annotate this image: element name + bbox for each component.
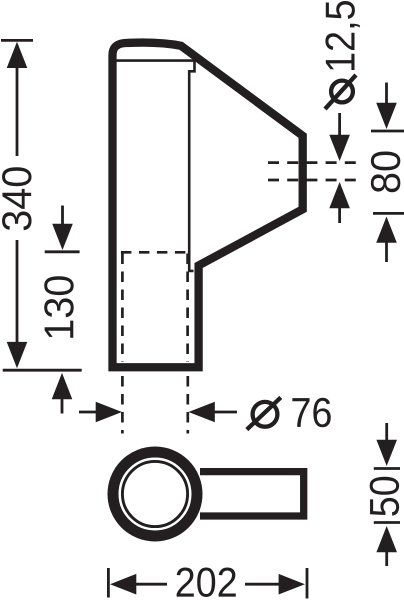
dim 202 left arrow bbox=[110, 574, 136, 595]
dim 50 label bbox=[370, 477, 400, 516]
hole centerline dashed upper bbox=[268, 161, 362, 164]
dim d12.5 down arrow bbox=[329, 135, 350, 161]
dashed insert rectangle left bbox=[121, 254, 124, 363]
dim d12.5 down arrow line bbox=[338, 113, 341, 136]
dim 130 lower arrow bbox=[52, 373, 73, 399]
dim 80 top tick bbox=[371, 130, 404, 133]
dim d76 right arrow bbox=[189, 402, 215, 423]
bottom view inner circle bbox=[122, 461, 187, 526]
dim d76 diameter symbol circle bbox=[253, 402, 278, 427]
dim 50 bottom arrow bbox=[376, 526, 397, 552]
dim 50 bottom arrow line bbox=[385, 551, 388, 566]
dim d76 right arrow tail bbox=[214, 411, 237, 414]
dim 340 line upper bbox=[16, 55, 19, 156]
dashed insert rectangle top bbox=[121, 251, 188, 254]
dashed extension below tube left bbox=[121, 376, 124, 434]
bottom view arm rectangle bbox=[200, 472, 304, 516]
dim 80 label bbox=[371, 152, 401, 193]
dim 80 bottom tick bbox=[373, 212, 404, 215]
dim 202 left arrow tail bbox=[135, 583, 167, 586]
dim 340 arrow down bbox=[7, 342, 28, 368]
dim d12.5 label bbox=[325, 1, 359, 70]
dim 50 top arrow bbox=[376, 440, 397, 466]
dim 130 label bbox=[44, 276, 74, 338]
dim 50 top arrow line bbox=[385, 423, 388, 441]
hole centerline dashed lower bbox=[268, 179, 362, 182]
cap bottom thin line bbox=[114, 59, 195, 62]
dim 130 upper arrow line bbox=[61, 206, 64, 226]
dim 50 top tick bbox=[374, 467, 400, 470]
dim 50 bottom tick bbox=[374, 521, 400, 524]
dim 202 right arrow tail bbox=[245, 583, 279, 586]
dim d12.5 diameter symbol circle bbox=[331, 81, 353, 103]
dim 130 lower arrow line bbox=[61, 398, 64, 414]
dim 80 bottom arrow bbox=[376, 217, 397, 243]
dim 202 label bbox=[177, 568, 236, 598]
dim 80 top arrow bbox=[376, 103, 397, 129]
bottom view outer ring bbox=[113, 452, 197, 536]
dim 340 label bbox=[2, 167, 32, 230]
dim 130 upper tick bbox=[45, 250, 80, 253]
dim d12.5 up arrow bbox=[329, 182, 350, 208]
main body outline (side view: tube with funnel) bbox=[113, 43, 303, 368]
dim 202 right arrow bbox=[279, 574, 305, 595]
dim d12.5 diameter symbol slash bbox=[325, 75, 356, 109]
dim 80 top arrow line bbox=[385, 83, 388, 105]
dashed insert rectangle right bbox=[186, 254, 189, 363]
dim 130 upper arrow bbox=[52, 224, 73, 250]
cap step and tube right thin edge bbox=[189, 59, 194, 271]
dim 202 left tick bbox=[107, 568, 110, 598]
dim 340 line lower bbox=[16, 240, 19, 350]
dim 80 bottom arrow line bbox=[385, 242, 388, 262]
dim d76 diameter symbol slash bbox=[247, 397, 281, 429]
dashed extension below tube right bbox=[186, 376, 189, 434]
dim 340 arrow up bbox=[7, 42, 28, 68]
dim 340 top tick bbox=[1, 39, 33, 42]
dim d76 label bbox=[292, 398, 330, 428]
dim 202 right tick bbox=[306, 568, 309, 599]
dim d12.5 up arrow line bbox=[338, 207, 341, 223]
dim d76 left arrow tail bbox=[79, 411, 97, 414]
tube bottom extension line bbox=[3, 369, 82, 372]
dim d76 left arrow bbox=[96, 402, 122, 423]
